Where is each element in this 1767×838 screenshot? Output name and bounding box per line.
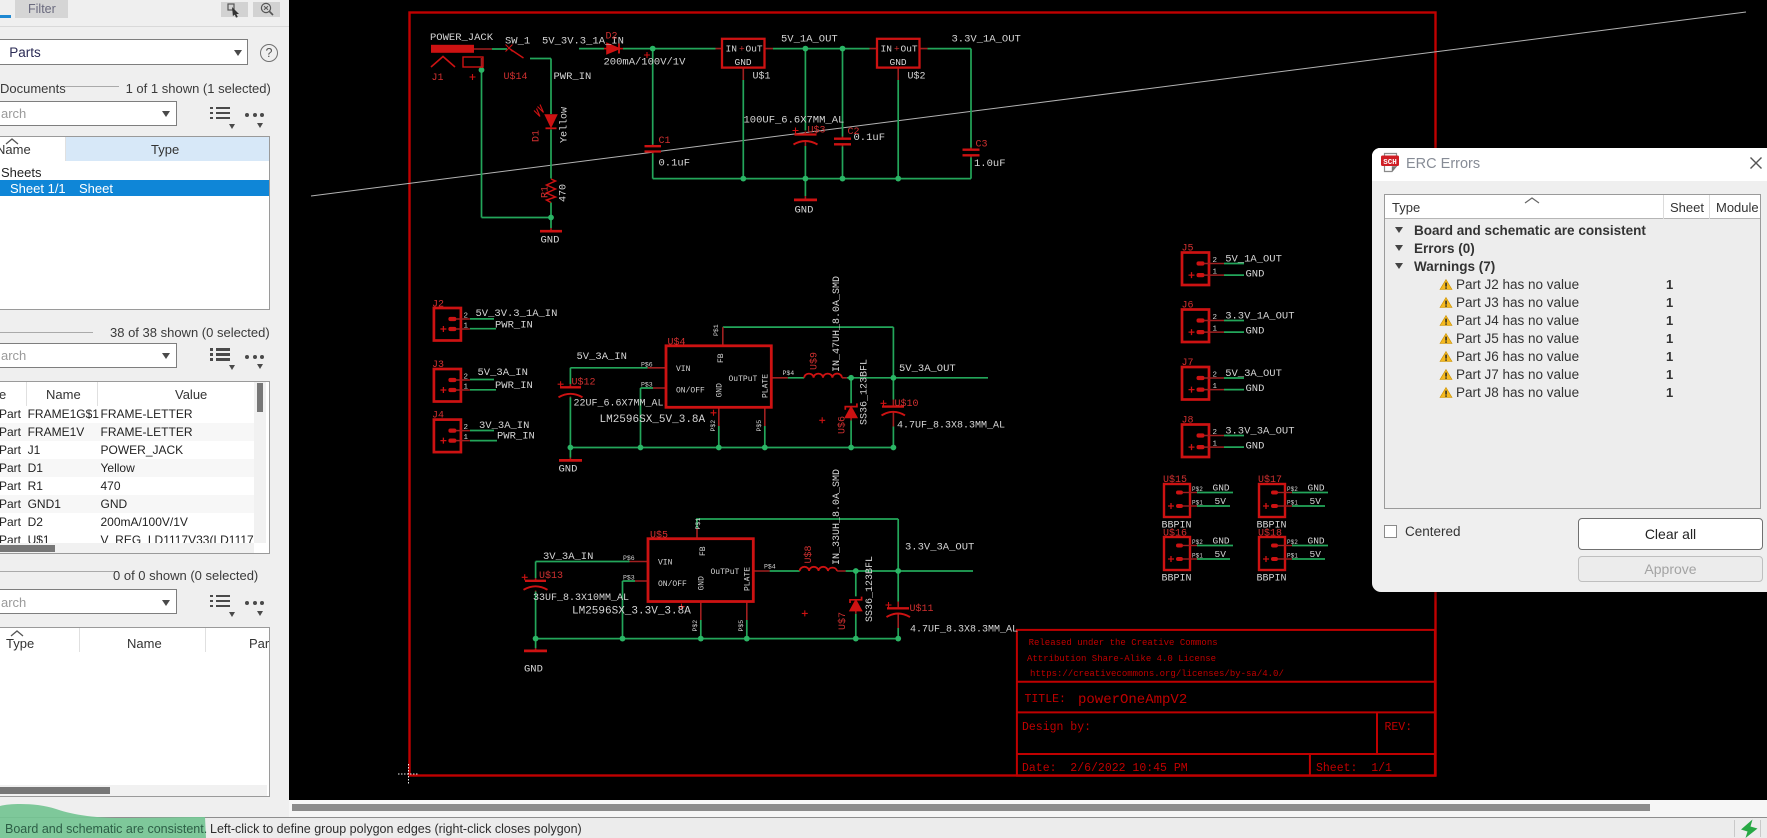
svg-text:P$2: P$2 (1287, 486, 1298, 493)
svg-text:IN_33UH_8.0A_SMD: IN_33UH_8.0A_SMD (832, 469, 843, 565)
svg-text:P$6: P$6 (623, 555, 635, 562)
svg-text:2: 2 (464, 374, 469, 382)
svg-text:P$1: P$1 (713, 324, 720, 336)
svg-text:J6: J6 (1182, 301, 1194, 312)
svg-text:33UF_8.3X10MM_AL: 33UF_8.3X10MM_AL (533, 593, 629, 604)
svg-text:GND: GND (1213, 536, 1230, 547)
svg-text:GND: GND (890, 57, 907, 68)
svg-text:1: 1 (464, 323, 469, 331)
svg-text:SW_1: SW_1 (505, 36, 530, 48)
svg-text:3.3V_3A_OUT: 3.3V_3A_OUT (905, 542, 974, 554)
svg-text:Sheet: 1/1: Sheet: 1/1 (1316, 762, 1392, 775)
svg-text:C1: C1 (659, 136, 671, 147)
svg-text:Released under the Creative Co: Released under the Creative Commons (1029, 638, 1218, 648)
svg-text:GND: GND (1246, 440, 1265, 452)
svg-text:LM2596SX_5V_3.8A: LM2596SX_5V_3.8A (600, 414, 706, 426)
svg-text:GND: GND (1246, 268, 1265, 280)
svg-text:J7: J7 (1182, 358, 1194, 369)
svg-text:Attribution Share-Alike 4.0 Li: Attribution Share-Alike 4.0 License (1027, 654, 1216, 664)
svg-text:OuT: OuT (746, 44, 763, 55)
svg-text:U$11: U$11 (910, 603, 934, 615)
svg-text:U$17: U$17 (1258, 474, 1282, 486)
svg-text:U$9: U$9 (809, 352, 821, 370)
svg-text:3.3V_1A_OUT: 3.3V_1A_OUT (952, 34, 1021, 46)
svg-text:1: 1 (1213, 268, 1218, 276)
svg-text:C2: C2 (848, 127, 860, 138)
svg-text:FB: FB (717, 353, 726, 363)
svg-text:D1: D1 (532, 130, 543, 142)
svg-text:P$3: P$3 (641, 382, 653, 389)
svg-text:SS36_123BFL: SS36_123BFL (865, 556, 876, 622)
svg-text:ON/OFF: ON/OFF (676, 387, 705, 396)
svg-text:P$1: P$1 (1287, 553, 1298, 560)
svg-text:2: 2 (1213, 371, 1218, 379)
svg-text:4.7UF_8.3X8.3MM_AL: 4.7UF_8.3X8.3MM_AL (910, 625, 1018, 636)
svg-text:5V: 5V (1215, 549, 1227, 560)
svg-text:GND: GND (1308, 536, 1325, 547)
svg-text:Date: 2/6/2022 10:45 PM: Date: 2/6/2022 10:45 PM (1022, 762, 1188, 775)
svg-text:GND: GND (1246, 383, 1265, 395)
svg-text:OuT: OuT (901, 44, 918, 55)
svg-text:U$3: U$3 (808, 125, 826, 137)
svg-text:GND: GND (559, 464, 578, 476)
svg-text:U$6: U$6 (836, 416, 848, 434)
svg-text:U$2: U$2 (908, 71, 926, 83)
svg-text:PLATE: PLATE (744, 567, 753, 591)
svg-text:J1: J1 (432, 73, 444, 84)
svg-text:2: 2 (1213, 314, 1218, 322)
svg-text:3V_3A_IN: 3V_3A_IN (543, 551, 593, 563)
svg-text:470: 470 (559, 184, 570, 202)
svg-text:U$10: U$10 (895, 398, 919, 410)
svg-text:Design by:: Design by: (1022, 721, 1091, 734)
svg-text:PWR_IN: PWR_IN (495, 380, 533, 392)
svg-text:IN: IN (726, 44, 737, 55)
svg-text:GND: GND (1246, 325, 1265, 337)
svg-text:LM2596SX_3.3V_3.8A: LM2596SX_3.3V_3.8A (572, 606, 691, 618)
svg-text:5V: 5V (1310, 549, 1322, 560)
svg-text:3.3V_1A_OUT: 3.3V_1A_OUT (1225, 310, 1294, 322)
svg-text:1.0uF: 1.0uF (974, 158, 1006, 170)
svg-text:GND: GND (524, 664, 543, 676)
svg-text:5V: 5V (1310, 496, 1322, 507)
svg-text:5V_3A_IN: 5V_3A_IN (577, 351, 627, 363)
svg-text:22UF_6.6X7MM_AL: 22UF_6.6X7MM_AL (574, 399, 664, 410)
svg-text:POWER_JACK: POWER_JACK (430, 32, 494, 44)
svg-text:Yellow: Yellow (559, 107, 571, 143)
svg-text:GND: GND (795, 205, 814, 217)
svg-text:R1: R1 (541, 186, 552, 198)
svg-text:1: 1 (464, 434, 469, 442)
svg-text:U$12: U$12 (572, 377, 596, 389)
svg-text:P$3: P$3 (623, 575, 635, 582)
svg-text:U$13: U$13 (539, 570, 563, 582)
svg-text:C3: C3 (976, 140, 988, 151)
svg-text:PWR_IN: PWR_IN (554, 71, 592, 83)
svg-text:P$6: P$6 (641, 362, 653, 369)
svg-text:GND: GND (716, 383, 725, 398)
svg-text:PWR_IN: PWR_IN (495, 320, 533, 332)
svg-text:2: 2 (464, 424, 469, 432)
svg-text:GND: GND (541, 235, 560, 247)
svg-text:FB: FB (699, 546, 708, 556)
svg-text:REV:: REV: (1385, 721, 1413, 734)
svg-text:5V_1A_OUT: 5V_1A_OUT (781, 34, 838, 46)
svg-text:GND: GND (698, 576, 707, 591)
svg-text:P$2: P$2 (710, 420, 717, 432)
svg-text:5V: 5V (1215, 496, 1227, 507)
svg-text:J3: J3 (432, 360, 444, 371)
svg-text:GND: GND (1213, 483, 1230, 494)
svg-text:2: 2 (1213, 429, 1218, 437)
svg-text:3.3V_3A_OUT: 3.3V_3A_OUT (1225, 425, 1294, 437)
svg-text:J8: J8 (1182, 416, 1194, 427)
svg-text:SCH: SCH (1383, 159, 1397, 167)
svg-text:4.7UF_8.3X8.3MM_AL: 4.7UF_8.3X8.3MM_AL (897, 421, 1005, 432)
svg-text:U$18: U$18 (1258, 528, 1282, 540)
svg-text:0.1uF: 0.1uF (659, 158, 691, 170)
svg-text:BBPIN: BBPIN (1162, 574, 1192, 585)
svg-text:U$7: U$7 (837, 612, 849, 630)
svg-text:P$2: P$2 (1192, 486, 1203, 493)
svg-text:J4: J4 (432, 411, 444, 422)
svg-text:J5: J5 (1182, 244, 1194, 255)
svg-text:powerOneAmpV2: powerOneAmpV2 (1078, 692, 1187, 708)
svg-text:P$1: P$1 (1192, 500, 1203, 507)
svg-text:GND: GND (735, 57, 752, 68)
svg-text:1: 1 (1213, 440, 1218, 448)
svg-text:200mA/100V/1V: 200mA/100V/1V (604, 57, 687, 69)
svg-text:1: 1 (464, 384, 469, 392)
svg-text:GND: GND (1308, 483, 1325, 494)
svg-text:SS36_123BFL: SS36_123BFL (859, 359, 870, 425)
svg-text:5V_3V.3_1A_IN: 5V_3V.3_1A_IN (476, 308, 558, 320)
svg-text:OuTPuT: OuTPuT (711, 568, 740, 577)
svg-text:5V_3A_IN: 5V_3A_IN (478, 367, 528, 379)
svg-text:https://creativecommons.org/li: https://creativecommons.org/licenses/by-… (1030, 669, 1284, 679)
svg-text:100UF_6.6X7MM_AL: 100UF_6.6X7MM_AL (744, 115, 845, 127)
svg-text:P$2: P$2 (1287, 539, 1298, 546)
svg-text:5V_3A_OUT: 5V_3A_OUT (899, 363, 956, 375)
svg-text:1: 1 (1213, 383, 1218, 391)
svg-text:IN: IN (881, 44, 892, 55)
svg-text:TITLE:: TITLE: (1025, 693, 1066, 706)
svg-text:U$1: U$1 (753, 71, 771, 83)
svg-text:U$4: U$4 (668, 337, 686, 349)
svg-text:P$5: P$5 (756, 420, 763, 432)
svg-text:VIN: VIN (658, 558, 673, 567)
svg-text:P$5: P$5 (738, 620, 745, 632)
svg-text:U$14: U$14 (504, 71, 528, 83)
svg-text:OuTPuT: OuTPuT (729, 375, 758, 384)
svg-text:PLATE: PLATE (762, 374, 771, 398)
svg-text:PWR_IN: PWR_IN (497, 431, 535, 443)
svg-text:P$1: P$1 (695, 518, 702, 530)
svg-text:+: + (894, 44, 900, 55)
svg-text:2: 2 (1213, 257, 1218, 265)
svg-text:P$1: P$1 (1287, 500, 1298, 507)
svg-text:P$2: P$2 (1192, 539, 1203, 546)
svg-text:U$16: U$16 (1163, 528, 1187, 540)
svg-text:5V_3A_OUT: 5V_3A_OUT (1225, 368, 1282, 380)
svg-text:U$15: U$15 (1163, 474, 1187, 486)
svg-text:1: 1 (1213, 325, 1218, 333)
svg-text:ON/OFF: ON/OFF (658, 580, 687, 589)
svg-text:VIN: VIN (676, 365, 691, 374)
svg-text:P$4: P$4 (783, 370, 795, 377)
svg-text:J2: J2 (432, 300, 444, 311)
svg-text:D2: D2 (606, 32, 618, 43)
svg-text:BBPIN: BBPIN (1257, 574, 1287, 585)
svg-text:U$8: U$8 (803, 545, 815, 563)
svg-text:U$5: U$5 (650, 530, 668, 542)
svg-text:IN_47UH_8.0A_SMD: IN_47UH_8.0A_SMD (832, 276, 843, 372)
svg-text:P$2: P$2 (692, 620, 699, 632)
svg-text:5V_1A_OUT: 5V_1A_OUT (1225, 253, 1282, 265)
svg-text:P$1: P$1 (1192, 553, 1203, 560)
svg-text:P$4: P$4 (764, 564, 776, 571)
svg-text:2: 2 (464, 313, 469, 321)
svg-text:+: + (739, 44, 745, 55)
